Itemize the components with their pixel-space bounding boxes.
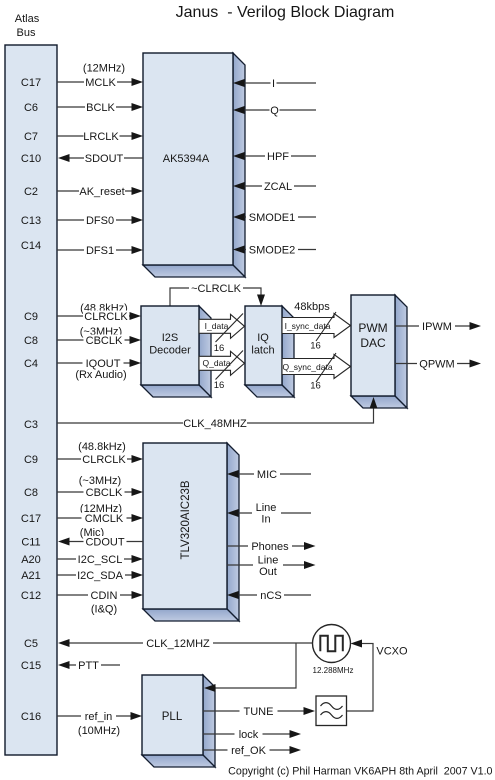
svg-text:Line: Line (256, 502, 277, 514)
block PWM DAC (351, 295, 407, 408)
svg-text:ref_OK: ref_OK (231, 745, 267, 757)
bus arrow I_data (199, 314, 245, 355)
wire Phones (227, 541, 316, 554)
svg-text:CLRCLK: CLRCLK (84, 311, 128, 323)
wire CLRCLK (57, 303, 141, 324)
svg-text:Q_sync_data: Q_sync_data (282, 362, 332, 372)
svg-text:SMODE1: SMODE1 (249, 212, 295, 224)
svg-text:TUNE: TUNE (244, 706, 274, 718)
block IQ latch (245, 306, 294, 397)
svg-text:48kbps: 48kbps (294, 301, 330, 313)
block AK5394A (143, 53, 245, 277)
svg-text:(10MHz): (10MHz) (78, 725, 120, 737)
filter block (316, 696, 347, 726)
svg-text:C13: C13 (21, 215, 41, 227)
svg-text:SDOUT: SDOUT (85, 153, 124, 165)
wire DFS0 (57, 215, 143, 228)
svg-text:HPF: HPF (267, 151, 289, 163)
wire IPWM (395, 321, 481, 334)
svg-text:latch: latch (251, 345, 274, 357)
svg-text:C7: C7 (24, 131, 38, 143)
wire filter to VCXO (347, 644, 374, 712)
svg-text:Q_data: Q_data (203, 358, 231, 368)
wire ref_in (57, 711, 142, 738)
svg-text:Q: Q (270, 105, 279, 117)
svg-text:ref_in: ref_in (85, 711, 113, 723)
svg-text:(12MHz): (12MHz) (83, 63, 125, 75)
wire Line In (227, 501, 311, 526)
svg-text:16: 16 (310, 341, 321, 352)
svg-text:LRCLK: LRCLK (83, 131, 119, 143)
wire Line Out (227, 554, 316, 579)
wire SDOUT (58, 153, 143, 166)
svg-text:SMODE2: SMODE2 (249, 245, 295, 257)
oscillator VCXO (313, 625, 409, 676)
wire PTT (58, 660, 120, 673)
svg-text:lock: lock (239, 729, 259, 741)
wire ~CLRCLK (170, 283, 265, 307)
wire HPF (233, 151, 316, 164)
wire MCLK (57, 63, 143, 90)
wire BCLK (57, 102, 143, 115)
svg-text:16: 16 (214, 343, 225, 354)
wire SMODE1 (233, 212, 316, 225)
wire ref_OK (203, 745, 301, 758)
wire ZCAL (233, 181, 316, 194)
svg-text:C9: C9 (24, 454, 38, 466)
svg-text:CDOUT: CDOUT (85, 537, 124, 549)
bus arrow I_sync_data (282, 312, 351, 352)
svg-text:CMCLK: CMCLK (85, 513, 124, 525)
svg-text:PLL: PLL (162, 711, 183, 723)
svg-text:MIC: MIC (257, 469, 277, 481)
svg-text:CLK_12MHZ: CLK_12MHZ (146, 638, 210, 650)
wire VCXO input (351, 640, 374, 648)
svg-text:Phones: Phones (251, 541, 289, 553)
svg-text:nCS: nCS (260, 590, 281, 602)
svg-text:C2: C2 (24, 186, 38, 198)
svg-text:CLRCLK: CLRCLK (82, 454, 126, 466)
wire CDOUT (58, 527, 143, 549)
svg-text:I2C_SCL: I2C_SCL (78, 554, 123, 566)
svg-text:VCXO: VCXO (376, 646, 408, 658)
svg-text:A21: A21 (21, 570, 41, 582)
svg-text:16: 16 (214, 380, 225, 391)
block I2S Decoder (141, 306, 211, 397)
svg-text:IPWM: IPWM (422, 321, 452, 333)
svg-text:BCLK: BCLK (86, 102, 115, 114)
svg-text:TLV320AIC23B: TLV320AIC23B (180, 480, 192, 559)
wire CBCLK (57, 326, 141, 347)
wire CBCLK codec (57, 475, 143, 499)
bus arrow Q_sync_data (282, 353, 351, 392)
svg-text:CLK_48MHZ: CLK_48MHZ (183, 418, 247, 430)
svg-text:I_data: I_data (205, 321, 229, 331)
svg-text:C17: C17 (21, 513, 41, 525)
wire DFS1 (57, 245, 143, 258)
wire AK_reset (57, 186, 143, 199)
svg-text:Out: Out (259, 566, 277, 578)
wire MIC (227, 469, 311, 482)
svg-text:PWM: PWM (358, 321, 387, 335)
svg-text:C3: C3 (24, 419, 38, 431)
svg-text:Copyright (c) Phil Harman VK6A: Copyright (c) Phil Harman VK6APH 8th Apr… (228, 766, 492, 778)
wire CLK_48MHZ (57, 397, 378, 430)
svg-text:Line: Line (258, 555, 279, 567)
svg-text:12.288MHz: 12.288MHz (313, 666, 354, 675)
wire LRCLK (57, 131, 143, 144)
svg-text:C5: C5 (24, 638, 38, 650)
wire lock (203, 729, 301, 742)
svg-text:16: 16 (310, 381, 321, 392)
svg-text:(~3MHz): (~3MHz) (79, 475, 121, 487)
svg-text:Atlas: Atlas (15, 13, 40, 25)
wire CLRCLK codec (57, 441, 143, 466)
svg-text:C10: C10 (21, 153, 41, 165)
wire branch to PLL (204, 643, 296, 692)
svg-text:(48.8kHz): (48.8kHz) (78, 441, 126, 453)
svg-text:CBCLK: CBCLK (86, 487, 123, 499)
wire SMODE2 (233, 244, 316, 257)
svg-text:(Rx Audio): (Rx Audio) (75, 369, 126, 381)
wire CDIN (57, 590, 143, 616)
wire I2C_SDA (57, 570, 143, 583)
wire CMCLK (57, 503, 143, 525)
svg-text:PTT: PTT (78, 660, 99, 672)
svg-text:CBCLK: CBCLK (86, 335, 123, 347)
svg-text:Janus - Verilog Block Diagram: Janus - Verilog Block Diagram (176, 4, 395, 21)
svg-text:In: In (261, 514, 270, 526)
svg-text:DAC: DAC (360, 336, 386, 350)
svg-text:AK5394A: AK5394A (163, 153, 210, 165)
block PLL (142, 675, 215, 767)
svg-text:C14: C14 (21, 240, 41, 252)
svg-text:C17: C17 (21, 77, 41, 89)
wire Q (233, 105, 316, 118)
svg-text:C11: C11 (21, 537, 40, 549)
svg-text:I: I (272, 78, 275, 90)
svg-text:CDIN: CDIN (91, 590, 118, 602)
svg-text:MCLK: MCLK (85, 77, 116, 89)
svg-text:I2S: I2S (162, 332, 179, 344)
svg-text:AK_reset: AK_reset (79, 186, 124, 198)
svg-text:IQ: IQ (257, 332, 269, 344)
bus arrow Q_data (199, 351, 245, 392)
wire I (233, 78, 316, 91)
wire I2C_SCL (57, 554, 143, 567)
block TLV320AIC23B (143, 443, 239, 621)
svg-text:C15: C15 (21, 660, 41, 672)
svg-text:ZCAL: ZCAL (264, 181, 292, 193)
svg-text:C4: C4 (24, 358, 38, 370)
svg-text:I2C_SDA: I2C_SDA (77, 570, 124, 582)
svg-text:Decoder: Decoder (149, 345, 191, 357)
svg-text:C12: C12 (21, 590, 41, 602)
wire IQOUT (57, 358, 141, 382)
Atlas Bus (5, 13, 57, 755)
svg-text:Bus: Bus (17, 27, 36, 39)
svg-text:QPWM: QPWM (419, 359, 454, 371)
svg-text:C8: C8 (24, 487, 38, 499)
wire nCS (227, 590, 311, 603)
svg-text:C8: C8 (24, 335, 38, 347)
svg-text:C9: C9 (24, 311, 38, 323)
svg-text:DFS0: DFS0 (86, 215, 114, 227)
svg-text:C6: C6 (24, 102, 38, 114)
wire TUNE (203, 706, 315, 719)
svg-text:(I&Q): (I&Q) (91, 604, 117, 616)
wire CLK_12MHZ (58, 638, 313, 651)
svg-text:C16: C16 (21, 711, 41, 723)
wire QPWM (395, 358, 481, 371)
svg-text:A20: A20 (21, 554, 41, 566)
svg-text:~CLRCLK: ~CLRCLK (191, 283, 241, 295)
svg-text:DFS1: DFS1 (86, 245, 114, 257)
